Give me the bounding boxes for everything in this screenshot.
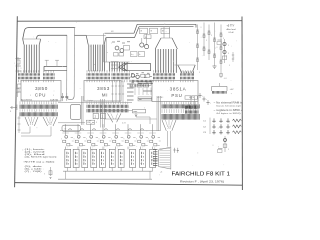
svg-text:PSU: PSU [171,93,182,98]
svg-text:64 bytes in 3853): 64 bytes in 3853) [217,112,241,115]
svg-text:+5 TTY: +5 TTY [227,25,235,28]
svg-text:3850: 3850 [35,86,48,91]
svg-text:FAIRCHILD F8 KIT 1: FAIRCHILD F8 KIT 1 [172,171,231,177]
svg-text:3853: 3853 [97,86,110,91]
svg-text:0.1uF: 0.1uF [229,32,235,34]
svg-text:~ No external RAM in: ~ No external RAM in [214,102,244,105]
svg-text:+: + [210,103,211,105]
svg-text:basic kit (except: basic kit (except [217,105,242,108]
svg-text:MI: MI [102,93,108,98]
svg-text:NOTE (a) = 3(de): NOTE (a) = 3(de) [25,161,56,163]
svg-text:Revision F , (April 23, 1976): Revision F , (April 23, 1976) [180,180,224,183]
svg-text:(7) , 74(8): (7) , 74(8) [25,171,43,173]
svg-text:(4), NmOS (version): (4), NmOS (version) [25,156,58,159]
svg-text:~ registers in 3850 +: ~ registers in 3850 + [214,109,244,112]
svg-text:2N l l: 2N l l [130,77,135,79]
svg-text:DATA: DATA [50,98,59,101]
svg-text:+5: +5 [160,172,162,174]
svg-text:ADDRESS: ADDRESS [21,98,33,101]
svg-text:l wires: l wires [88,100,93,102]
svg-text:1 2 l: 1 2 l [122,122,126,124]
svg-text:LM l: LM l [87,122,91,124]
svg-text:lc: lc [139,54,140,56]
svg-text:lc: lc [131,54,132,56]
svg-text:xxxx: xxxx [133,111,137,113]
svg-text:intr: intr [139,98,142,101]
svg-text:+: + [202,96,203,98]
svg-text:3851A: 3851A [170,87,187,92]
svg-text:Also load: Also load [227,28,237,31]
svg-text:+5V: +5V [230,89,234,91]
svg-text:+: + [206,99,207,101]
